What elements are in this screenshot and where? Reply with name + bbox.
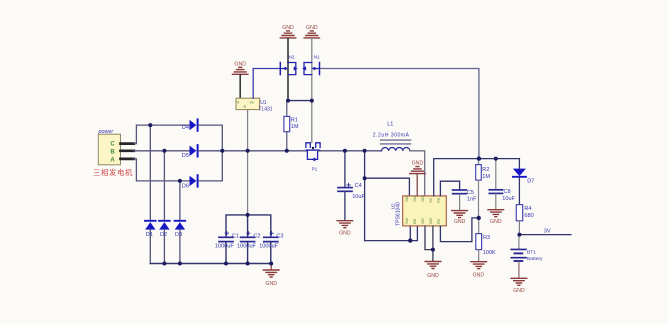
ground (U2) <box>425 262 441 279</box>
svg-text:D7: D7 <box>527 179 534 185</box>
svg-text:D2: D2 <box>160 232 167 238</box>
wire N2 gate from U1 <box>253 68 279 70</box>
svg-text:D5: D5 <box>182 153 189 159</box>
wire C8 branch <box>495 159 497 189</box>
regulator U1 <box>236 98 273 112</box>
connector J? power (three-phase generator) <box>93 129 133 177</box>
svg-text:3V: 3V <box>544 229 551 235</box>
wire phase C tap down <box>149 125 151 220</box>
wire D7 to R4 <box>518 178 520 205</box>
svg-text:N2: N2 <box>289 54 295 59</box>
svg-text:10uF: 10uF <box>352 194 365 200</box>
svg-text:GND: GND <box>265 281 277 287</box>
wire U2 pin3/4 bottom to ground <box>425 226 433 261</box>
diode D5 <box>182 145 198 159</box>
diode D3 <box>175 221 186 264</box>
svg-text:L1: L1 <box>387 121 393 127</box>
svg-text:FB: FB <box>437 219 441 224</box>
ground (R3) <box>471 262 487 279</box>
svg-text:GND: GND <box>427 273 439 279</box>
capacitor C5 <box>453 190 478 203</box>
wire cap bank top rail <box>226 215 271 237</box>
diode D4 <box>182 119 198 131</box>
pin stub A <box>121 158 134 161</box>
ground (C4) <box>337 221 353 237</box>
svg-text:GND: GND <box>234 61 246 67</box>
wire SW node down <box>364 151 366 241</box>
wire D6 cathode to DC rail <box>199 151 223 181</box>
inductor L1 <box>373 121 411 150</box>
capacitor C1 <box>215 232 239 264</box>
wire C4 to ground <box>344 192 346 220</box>
wire C4 branch <box>344 151 346 187</box>
ground GND (above N2, inverted) <box>280 25 295 38</box>
svg-text:Vo: Vo <box>250 100 254 104</box>
wire phase C to D4 <box>134 125 190 144</box>
svg-text:B: B <box>110 150 115 156</box>
svg-text:VC: VC <box>429 197 433 202</box>
diode D2 <box>159 221 170 264</box>
capacitor C4 <box>338 183 366 200</box>
svg-text:GND: GND <box>282 25 294 31</box>
transistor P1 <box>306 143 320 172</box>
wire DC+ rail <box>199 150 307 152</box>
ground (C8) <box>488 210 504 225</box>
svg-text:TPS61040: TPS61040 <box>396 202 402 226</box>
svg-text:C4: C4 <box>355 183 362 189</box>
svg-text:R4: R4 <box>524 206 531 212</box>
svg-text:1000uF: 1000uF <box>259 244 279 250</box>
svg-text:GND: GND <box>513 288 525 294</box>
svg-text:C2: C2 <box>253 233 260 239</box>
wire N1 gate to output node (long top wire) <box>321 69 479 159</box>
wire U2 pin4 top to output rail <box>434 159 520 196</box>
svg-text:C5: C5 <box>467 190 474 196</box>
resistor R4 <box>516 205 533 235</box>
svg-text:R: R <box>244 105 247 109</box>
capacitor C8 <box>489 189 515 202</box>
wire P1 drain to L1 <box>318 150 382 152</box>
svg-text:A: A <box>110 158 115 164</box>
capacitor C3 <box>259 232 283 264</box>
ground GND (above N1, inverted) <box>304 25 319 38</box>
resistor R1 <box>284 101 299 151</box>
svg-text:BT1: BT1 <box>527 249 536 255</box>
svg-text:GD: GD <box>421 218 425 224</box>
svg-text:C8: C8 <box>504 189 511 195</box>
wire to battery <box>518 235 520 249</box>
wire P1 gate drop <box>311 101 313 143</box>
svg-text:C1: C1 <box>232 233 239 239</box>
svg-text:GND: GND <box>412 160 424 166</box>
svg-text:SW: SW <box>413 195 417 201</box>
svg-text:680: 680 <box>524 213 533 219</box>
svg-text:TL431: TL431 <box>258 107 272 113</box>
ground (C5) <box>452 211 468 225</box>
wire GND to U1 <box>239 75 241 98</box>
svg-text:GND: GND <box>454 219 466 225</box>
svg-text:D3: D3 <box>175 232 182 238</box>
pin stub B <box>121 149 134 152</box>
svg-text:Battery: Battery <box>527 256 543 262</box>
battery BT1 <box>511 249 543 262</box>
svg-text:N1: N1 <box>314 54 320 59</box>
diode D7 <box>513 159 534 185</box>
wire bottom return rail <box>150 263 271 265</box>
wire battery to ground <box>518 262 520 278</box>
svg-text:GND: GND <box>339 230 351 236</box>
wire GND to N1 drain <box>311 39 313 62</box>
wire U2 pin5 bottom to FB node <box>440 218 478 242</box>
svg-text:R3: R3 <box>483 235 490 241</box>
wire L1 to U2 pin SW-top <box>410 151 425 196</box>
svg-text:R2: R2 <box>482 167 489 173</box>
pin stub C <box>121 142 134 145</box>
IC U2 TPS61040 <box>391 195 447 226</box>
svg-text:D6: D6 <box>182 183 189 189</box>
ground (filter bank) <box>263 264 279 288</box>
svg-text:10uF: 10uF <box>502 196 515 202</box>
wire SW node to U2 pin1 top <box>365 178 410 196</box>
wire C2 top lead <box>247 215 249 237</box>
svg-text:1000uF: 1000uF <box>215 244 235 250</box>
wire N2/N1 source link <box>288 100 312 102</box>
svg-text:三相发电机: 三相发电机 <box>93 168 133 177</box>
svg-text:D1: D1 <box>146 232 153 238</box>
wire phase A tap down <box>179 181 181 221</box>
wire D4 cathode to DC rail <box>199 125 223 151</box>
diode D6 <box>182 175 198 189</box>
svg-text:GND: GND <box>490 219 502 225</box>
svg-text:EN: EN <box>413 218 417 223</box>
ground GND (above U2 pin2, inverted) <box>410 160 425 173</box>
wire U1 to N2 gate <box>252 69 254 99</box>
wire C8 to ground <box>495 194 497 209</box>
svg-text:1nF: 1nF <box>467 197 477 203</box>
wire SW node to U2 pin1/2 bottom <box>365 226 418 241</box>
svg-text:1M: 1M <box>291 124 299 130</box>
svg-text:GD: GD <box>421 196 425 202</box>
wire 3V output <box>519 234 571 236</box>
svg-text:SW: SW <box>405 217 409 223</box>
svg-text:GND: GND <box>473 273 485 279</box>
wire C5 to ground <box>459 194 461 210</box>
wire U2 pin1 bottom <box>409 226 411 241</box>
svg-text:P1: P1 <box>312 166 318 171</box>
capacitor C2 <box>237 232 261 264</box>
transistor N2 <box>280 54 297 100</box>
svg-text:100K: 100K <box>483 250 496 256</box>
svg-text:2.2uH 300mA: 2.2uH 300mA <box>373 133 410 139</box>
svg-text:D4: D4 <box>182 125 189 131</box>
ground GND (above U1, inverted) <box>233 61 248 74</box>
ground (battery) <box>511 278 527 294</box>
svg-text:SW: SW <box>405 195 409 201</box>
resistor R3 <box>476 218 496 261</box>
wire filter bank feed (U1 pin / rail to caps) <box>247 110 249 215</box>
diode D1 <box>145 221 156 264</box>
svg-text:FB: FB <box>437 198 441 203</box>
wire phase A to D6 <box>134 159 190 181</box>
wire phase B tap down <box>163 151 165 221</box>
wire phase B to D5 <box>134 150 190 152</box>
svg-text:1M: 1M <box>482 174 490 180</box>
svg-text:GN: GN <box>429 218 433 224</box>
svg-text:C3: C3 <box>276 233 283 239</box>
wire U2 pin2 top to GND <box>416 174 418 196</box>
wire U2 pin5 top to C5 <box>440 181 459 196</box>
svg-text:C: C <box>110 142 115 148</box>
resistor R2 <box>476 159 491 218</box>
transistor N1 <box>302 54 320 100</box>
svg-text:1000uF: 1000uF <box>237 244 257 250</box>
wire GND to N2 drain <box>287 39 289 62</box>
svg-text:U1: U1 <box>260 100 267 106</box>
svg-text:GND: GND <box>306 25 318 31</box>
svg-text:R1: R1 <box>291 117 298 123</box>
